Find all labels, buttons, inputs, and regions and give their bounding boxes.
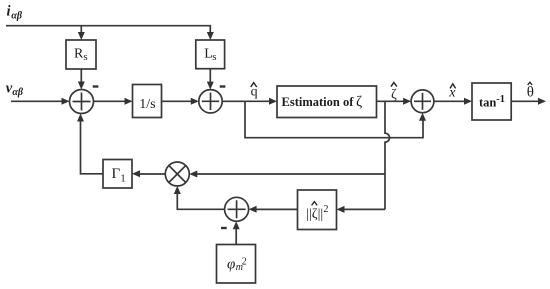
wire branch to Rs: [80, 26, 82, 34]
wire S4 output to multiplier bottom: [177, 193, 224, 210]
label Gamma1: [112, 166, 126, 185]
arrowhead into S4 bottom: [233, 221, 240, 229]
block Estimation of zeta: [277, 86, 377, 118]
wire S1 to 1/s: [94, 100, 128, 102]
summing junction S1: [70, 90, 94, 114]
minus sign at S1: [93, 85, 99, 87]
wire S2 to estimation block, node q: [223, 100, 272, 102]
svg-text:1: 1: [120, 173, 126, 185]
svg-text:i: i: [7, 4, 11, 20]
wire norm block to S4: [256, 208, 298, 210]
wire zeta vertical with hop over q feedback: [385, 101, 390, 209]
label i_alphabeta: [7, 4, 23, 22]
label norm zeta squared: [306, 202, 328, 222]
arrowhead into multiplier bottom: [174, 186, 181, 194]
wire multiplier to gamma block: [139, 173, 165, 175]
arrowhead into gamma block right: [132, 170, 140, 177]
wire Rs to S1: [80, 69, 82, 84]
svg-text:φ: φ: [227, 256, 235, 272]
svg-text:tan: tan: [479, 95, 496, 109]
arrowhead into 1/s: [125, 98, 133, 105]
svg-text:αβ: αβ: [12, 87, 24, 98]
svg-text:-1: -1: [496, 94, 505, 105]
block 1/s: [133, 85, 162, 118]
arrowhead into S1 left: [62, 98, 70, 105]
svg-text:Γ: Γ: [112, 166, 121, 182]
block phi_m squared: [217, 245, 256, 284]
wire v_ab input: [11, 100, 64, 102]
wire q feedback down-right-up to S3: [245, 101, 423, 137]
minus sign at S4: [221, 227, 227, 229]
summing junction S4: [225, 197, 249, 221]
arrowhead into multiplier right: [189, 171, 197, 178]
svg-text:αβ: αβ: [11, 11, 23, 22]
wire phi block to S4 bottom: [235, 228, 237, 244]
svg-text:Estimation of: Estimation of: [282, 95, 355, 109]
multiplier M: [165, 162, 189, 186]
label v_alphabeta: [6, 81, 24, 98]
block tan^-1: [472, 83, 511, 120]
label tan^-1: [479, 94, 505, 109]
label phi_m squared: [227, 256, 247, 273]
wire i_ab top bus: [6, 26, 210, 34]
minus sign at S2: [220, 85, 226, 87]
wire S3 to tan block: [434, 100, 467, 102]
svg-text:ζ: ζ: [356, 94, 362, 110]
label theta hat: [527, 82, 534, 101]
arrowhead into S3 left: [403, 98, 411, 105]
svg-text:s: s: [83, 51, 87, 63]
label Estimation of zeta: [282, 94, 363, 110]
arrowhead output theta: [538, 98, 546, 105]
label zeta hat: [391, 83, 397, 103]
svg-text:2: 2: [323, 204, 328, 215]
wire 1/s to S2: [162, 100, 194, 102]
wire estimation to S3 with zeta node: [377, 100, 406, 102]
arrowhead into S4 right: [249, 206, 257, 213]
wire tan output theta: [511, 100, 539, 102]
summing junction S2: [199, 90, 222, 113]
wire gamma output to S1 bottom: [81, 121, 104, 174]
label Rs: [74, 47, 88, 63]
label Ls: [204, 47, 216, 63]
arrowhead into norm block right: [337, 206, 345, 213]
arrowhead into Ls top: [207, 32, 214, 40]
block norm zeta squared: [298, 190, 337, 230]
wire zeta to norm block: [343, 208, 385, 210]
svg-text:s: s: [212, 51, 216, 63]
label x hat: [448, 84, 456, 101]
arrowhead into Rs top: [78, 32, 85, 40]
svg-text:ζ: ζ: [391, 87, 397, 102]
block Ls: [196, 40, 225, 69]
block Gamma1: [103, 160, 132, 189]
svg-text:θ: θ: [527, 85, 534, 101]
wire Ls to S2: [209, 69, 211, 84]
label q hat: [251, 83, 258, 100]
wire zeta branch to multiplier: [197, 173, 386, 175]
svg-text:||ζ||: ||ζ||: [306, 207, 323, 222]
svg-text:2: 2: [242, 256, 247, 267]
arrowhead into tan block: [464, 98, 472, 105]
arrowhead into S2 left: [191, 98, 199, 105]
summing junction S3: [411, 90, 434, 113]
arrowhead into estimation block: [269, 98, 277, 105]
svg-text:1/s: 1/s: [139, 97, 155, 112]
arrowhead into S1 top: [78, 82, 85, 90]
arrowhead into S3 bottom: [419, 113, 426, 121]
block Rs: [66, 40, 96, 69]
arrowhead into S2 top: [207, 82, 214, 90]
arrowhead into S1 bottom: [77, 114, 84, 122]
